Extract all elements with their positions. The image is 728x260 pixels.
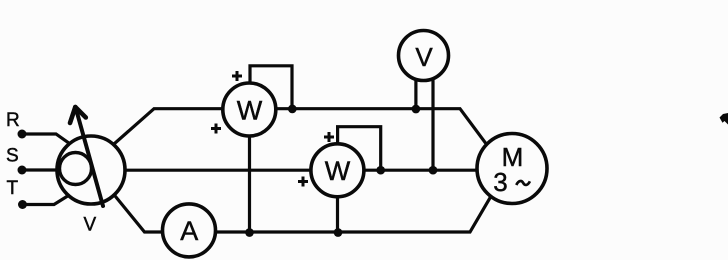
wattmeter W2 circle [311, 144, 364, 197]
wire W2 voltage return dropper [336, 175, 339, 233]
wire voltmeter right leg [431, 68, 434, 170]
wire phase3 bottom line variac to motor [116, 195, 493, 233]
cursor artifact at right edge [720, 113, 728, 125]
node voltmeter top-line junction [412, 105, 421, 114]
node R terminal [18, 130, 27, 139]
svg-text:S: S [6, 146, 19, 167]
variac V1 adjustment arrow [70, 107, 103, 206]
svg-text:A: A [180, 216, 198, 246]
svg-text:V: V [415, 42, 433, 72]
ammeter A circle [163, 204, 216, 257]
wattmeter W1 plus voltage [232, 71, 242, 81]
node T terminal [18, 200, 27, 209]
wire phase2 middle line variac to motor [123, 169, 481, 172]
variac V1 inner winding circle [60, 153, 92, 185]
motor M circle [477, 134, 547, 204]
wire voltmeter left leg [414, 68, 417, 109]
svg-text:W: W [325, 156, 351, 186]
node W2 dropper junction [334, 228, 343, 237]
wire phase1 top line variac to motor [114, 109, 490, 149]
wire W2 voltage coil loop [338, 127, 381, 170]
svg-text:V: V [83, 215, 96, 236]
wattmeter W1 plus current [211, 124, 221, 134]
svg-text:W: W [237, 96, 263, 126]
wire T terminal to variac [23, 196, 69, 205]
svg-text:R: R [6, 110, 20, 131]
node W1 loop junction [288, 105, 297, 114]
wattmeter W1 circle [223, 83, 276, 136]
wire W1 voltage return dropper [248, 115, 251, 233]
motor label tilde [516, 181, 530, 185]
wire W1 voltage coil loop [250, 66, 292, 109]
wattmeter W2 plus current [298, 177, 308, 187]
wattmeter W2 plus voltage [324, 132, 334, 142]
voltmeter V circle [399, 31, 449, 81]
node voltmeter middle-line junction [429, 166, 438, 175]
svg-text:3: 3 [493, 167, 507, 197]
node W1 dropper junction [245, 228, 254, 237]
svg-text:T: T [7, 178, 19, 199]
wire S terminal to variac [22, 168, 59, 171]
wire R terminal to variac [22, 134, 70, 144]
node S terminal [18, 166, 27, 175]
variac V1 outer circle [57, 136, 125, 204]
node W2 loop junction [376, 166, 385, 175]
